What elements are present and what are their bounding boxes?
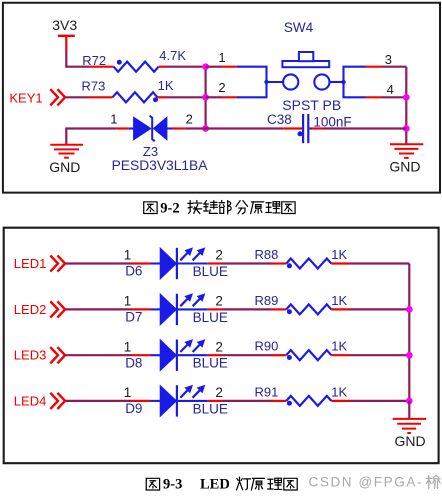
diode Z3 zener bar (150, 116, 155, 142)
switch SW4 pin 2 (222, 96, 238, 98)
diode Z3 left triangle (134, 117, 151, 140)
svg-text:2: 2 (215, 294, 223, 309)
diode D9 right lead (178, 400, 208, 402)
panel 2 frame (4, 228, 439, 464)
wire left bus (205, 67, 207, 129)
svg-text:R90: R90 (255, 339, 279, 354)
svg-text:R88: R88 (255, 247, 279, 262)
svg-text:1: 1 (110, 111, 117, 126)
diode D8 pin 2 (208, 354, 222, 356)
resistor R73 body (113, 92, 158, 102)
resistor R73 pin 2 (89, 96, 113, 98)
wire left GND leg (66, 129, 116, 145)
wire LED4 to D9 (65, 400, 132, 402)
resistor R91 pin1 dot (287, 401, 292, 406)
svg-text:D7: D7 (125, 310, 142, 325)
LED D6 triangle (160, 248, 176, 279)
resistor R91 body (286, 396, 331, 406)
svg-text:R89: R89 (255, 293, 279, 308)
switch SW4 left contact circle (283, 74, 298, 89)
svg-text:R73: R73 (82, 79, 106, 94)
wire KEY1 to R73 (65, 96, 88, 98)
diode D6 right lead (178, 262, 208, 264)
svg-text:2: 2 (186, 111, 193, 126)
diode D9 left lead (151, 400, 161, 402)
svg-text:LED4: LED4 (14, 393, 47, 408)
switch SW4 right contact lead (330, 81, 344, 83)
diode D8 left lead (151, 354, 161, 356)
svg-text:100nF: 100nF (313, 114, 351, 129)
switch SW4 right contact circle (314, 74, 329, 89)
capacitor C38 pin 2 (312, 127, 323, 129)
diode D7 pin 2 (208, 308, 222, 310)
wire bus to GND (408, 401, 410, 419)
LED D8 cathode bar (176, 340, 178, 371)
wire LED3 to D8 (65, 354, 132, 356)
svg-text:GND: GND (49, 159, 80, 175)
svg-text:BLUE: BLUE (193, 401, 228, 416)
LED D9 cathode bar (176, 385, 178, 416)
svg-text:3V3: 3V3 (52, 17, 77, 33)
diode Z3 left lead (129, 127, 134, 129)
wire D6 to R88 (222, 262, 271, 264)
capacitor C38 left plate (302, 114, 304, 143)
resistor R73 pin 1 (158, 96, 167, 98)
LED D6 light arrows (180, 248, 204, 260)
svg-text:1: 1 (124, 294, 132, 309)
resistor R90 pin1 dot (287, 355, 292, 360)
svg-text:D6: D6 (125, 264, 142, 279)
svg-text:9-2: 9-2 (160, 201, 179, 217)
resistor R90 body (286, 350, 331, 360)
wire node to pin1 (206, 66, 222, 68)
svg-text:1: 1 (124, 385, 132, 400)
wire R90 to right bus (349, 354, 409, 356)
svg-text:Z3: Z3 (143, 144, 158, 159)
capacitor C38 pin1 dot (298, 131, 303, 136)
svg-text:LED1: LED1 (14, 256, 47, 271)
svg-text:GND: GND (395, 433, 426, 449)
caption figure 9-2 (144, 200, 295, 216)
svg-text:2: 2 (215, 339, 223, 354)
power symbol 3V3 stem (65, 36, 67, 51)
wire LED2 to D7 (65, 308, 132, 310)
junction LED4 row (406, 398, 413, 405)
port arrow LED1 (50, 255, 58, 271)
svg-text:2: 2 (218, 80, 225, 95)
svg-text:SPST PB: SPST PB (282, 97, 341, 113)
svg-text:1K: 1K (331, 293, 347, 308)
switch SW4 pin 3 (366, 66, 383, 68)
diode D6 pin 1 (132, 262, 151, 264)
power symbol 3V3 bar (58, 35, 75, 37)
svg-text:2: 2 (215, 248, 223, 263)
svg-text:1K: 1K (331, 247, 347, 262)
wire R73 to node (166, 96, 206, 98)
junction right row3 (403, 125, 410, 132)
port arrow KEY1 (50, 89, 58, 105)
switch SW4 button plunger (299, 52, 313, 61)
capacitor C38 right lead (309, 127, 312, 129)
wire 3V3 to R72 (66, 51, 89, 67)
switch SW4 pin 1 (222, 66, 238, 68)
port arrow LED3 (50, 347, 58, 363)
resistor R91 pin 2 (331, 400, 349, 402)
wire pin4 to right bus (382, 96, 406, 98)
svg-text:CSDN @FPGA-: CSDN @FPGA- (309, 475, 424, 490)
junction LED3 row (406, 352, 413, 359)
svg-text:D9: D9 (125, 401, 142, 416)
port arrow LED4 (50, 393, 58, 409)
panel 1 frame (3, 3, 440, 193)
svg-text:1K: 1K (331, 339, 347, 354)
wire R88 to right bus (349, 262, 409, 264)
svg-text:2: 2 (215, 385, 223, 400)
svg-text:1K: 1K (158, 78, 174, 93)
svg-text:C38: C38 (267, 112, 292, 127)
wire D8 to R90 (222, 354, 271, 356)
LED D7 cathode bar (176, 294, 178, 325)
svg-text:1: 1 (124, 248, 132, 263)
svg-text:LED3: LED3 (14, 348, 47, 363)
resistor R88 pin 2 (331, 262, 349, 264)
svg-text:1K: 1K (331, 384, 347, 399)
wire D7 to R89 (222, 308, 271, 310)
LED D9 triangle (160, 386, 176, 417)
diode Z3 right triangle (154, 117, 167, 140)
port arrow LED2 (50, 301, 58, 317)
junction node row3 (202, 125, 209, 132)
resistor R72 pin1 dot (117, 60, 122, 65)
diode D7 left lead (151, 308, 161, 310)
resistor R88 pin 1 (271, 262, 286, 264)
wire Z3 to C38 (185, 127, 283, 129)
resistor R88 pin1 dot (287, 263, 292, 268)
resistor R89 pin 1 (271, 308, 286, 310)
LED D6 cathode bar (176, 248, 178, 279)
switch SW4 left junction dot (264, 80, 268, 84)
resistor R73 pin1 dot (153, 97, 158, 102)
wire D9 to R91 (222, 400, 271, 402)
svg-text:GND: GND (389, 159, 420, 175)
resistor R72 pin 1 (90, 66, 114, 68)
wire R91 to right bus (349, 400, 409, 402)
wire LED1 to D6 (65, 262, 132, 264)
resistor R91 pin 1 (271, 400, 286, 402)
LED D9 light arrows (180, 386, 204, 398)
svg-text:PESD3V3L1BA: PESD3V3L1BA (112, 158, 209, 173)
diode D6 left lead (151, 262, 161, 264)
switch SW4 button cap (282, 61, 329, 67)
svg-text:R91: R91 (255, 384, 279, 399)
switch SW4 left contact lead (267, 81, 284, 83)
svg-text:1: 1 (124, 339, 132, 354)
switch SW4 right bracket (344, 67, 366, 98)
resistor R72 body (114, 62, 159, 72)
wire pin3 to right bus (382, 66, 406, 68)
diode D8 pin 1 (132, 354, 151, 356)
svg-text:D8: D8 (125, 355, 142, 370)
resistor R89 body (286, 304, 331, 314)
svg-text:BLUE: BLUE (193, 310, 228, 325)
LED D7 light arrows (180, 294, 204, 306)
junction node row1 (202, 63, 209, 70)
svg-text:LED2: LED2 (14, 302, 47, 317)
LED D8 triangle (160, 340, 176, 371)
svg-text:9-3: 9-3 (163, 477, 182, 493)
svg-text:KEY1: KEY1 (9, 91, 42, 106)
watermark qiao char (426, 475, 440, 488)
svg-text:SW4: SW4 (284, 20, 314, 35)
LED D7 triangle (160, 294, 176, 325)
ground symbol panel2 (393, 419, 427, 433)
wire C38 to right bus (323, 127, 407, 129)
svg-text:4: 4 (387, 82, 394, 97)
wire right bus panel2 (408, 264, 410, 401)
svg-text:4.7K: 4.7K (159, 48, 186, 63)
resistor R90 pin 2 (331, 354, 349, 356)
junction LED2 row (406, 306, 413, 313)
diode Z3 pin 1 (116, 127, 129, 129)
wire node to pin2 (206, 96, 222, 98)
diode D9 pin 1 (132, 400, 151, 402)
switch SW4 right junction dot (341, 80, 345, 84)
resistor R89 pin 2 (331, 308, 349, 310)
capacitor C38 pin 1 (283, 127, 302, 129)
wire R89 to right bus (349, 308, 409, 310)
switch SW4 pin 4 (366, 96, 383, 98)
svg-text:1: 1 (218, 50, 225, 65)
diode D9 pin 2 (208, 400, 222, 402)
resistor R89 pin1 dot (287, 309, 292, 314)
junction right row2 (403, 94, 410, 101)
svg-text:3: 3 (385, 52, 392, 67)
resistor R72 pin 2 (159, 66, 167, 68)
junction node row2 (202, 94, 209, 101)
wire right bus (405, 67, 407, 144)
diode Z3 pin 2 (173, 127, 186, 129)
diode D8 right lead (178, 354, 208, 356)
diode D7 pin 1 (132, 308, 151, 310)
ground right symbol (390, 144, 423, 158)
wire R72 to node (167, 66, 206, 68)
svg-text:BLUE: BLUE (193, 356, 228, 371)
diode D7 right lead (178, 308, 208, 310)
switch SW4 left bracket (237, 67, 267, 98)
resistor R90 pin 1 (271, 354, 286, 356)
caption figure 9-3 (146, 477, 297, 493)
resistor R88 body (286, 259, 331, 269)
ground left symbol (50, 145, 83, 158)
diode D6 pin 2 (208, 262, 222, 264)
svg-text:BLUE: BLUE (193, 264, 228, 279)
capacitor C38 right plate (307, 114, 309, 143)
diode Z3 right lead (167, 127, 173, 129)
LED D8 light arrows (180, 340, 204, 352)
svg-text:LED: LED (200, 477, 230, 493)
